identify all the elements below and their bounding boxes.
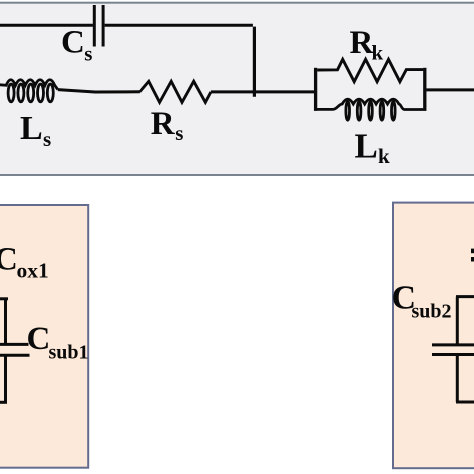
svg-text:s: s [175,121,183,145]
wire: Csub2 top stub [456,295,474,298]
capacitor Cs right plate [102,5,105,47]
label Cs [61,25,92,66]
svg-text:sub1: sub1 [49,342,89,364]
top panel (series branch frame) [0,3,474,175]
capacitor Csub1 top plate [0,343,29,346]
wire: Csub1 lead lower [4,355,7,402]
wire: bypass junction vertical [253,27,256,97]
capacitor Csub2 bottom plate [432,353,474,356]
svg-text:C: C [27,321,51,357]
inductor Lk [317,99,424,120]
wire: tank to right edge [426,88,474,91]
svg-text:L: L [355,127,378,166]
svg-text:s: s [43,127,51,151]
capacitor Csub2 top plate [432,343,474,346]
svg-text:k: k [378,144,390,168]
capacitor Csub1 bottom plate [0,354,30,357]
wire: Csub2 lead upper [456,297,459,345]
label Cox1 [0,242,49,283]
svg-text:R: R [151,106,176,142]
wire: bypass top-right [105,24,253,27]
svg-text:C: C [0,242,18,278]
wire: Ls to Rs [58,90,140,92]
label Rk [350,25,384,64]
label Ls [20,110,51,151]
label Csub2 [392,280,452,323]
wire: Csub2 bottom stub [456,401,474,404]
resistor Rs [140,81,211,102]
wire: Csub1 bottom stub [0,401,7,404]
label Rs [151,106,184,145]
node: clipped label mark at right edge [471,249,474,262]
svg-text:C: C [61,25,85,61]
svg-text:sub2: sub2 [412,301,452,323]
svg-text:k: k [372,41,384,65]
wire: bypass top-left [0,24,93,27]
wire: Csub2 lead lower [456,355,459,403]
node: tank left bar [314,68,317,111]
wire: Rs to parallel tank [211,90,314,93]
label Csub1 [27,321,89,364]
capacitor Cs left plate [93,5,96,47]
wire: Cox1 branch lead upper [4,299,7,345]
substrate box 2 (right) [393,203,474,469]
substrate box 1 (left) [0,205,88,468]
svg-text:ox1: ox1 [17,259,49,283]
svg-text:s: s [84,41,92,65]
wire: Cox1 branch top stub [0,297,8,300]
svg-text:L: L [20,110,43,147]
node: tank right bar [423,68,426,111]
inductor Ls [0,80,58,102]
label Lk [355,127,391,169]
resistor Rk [317,59,423,81]
